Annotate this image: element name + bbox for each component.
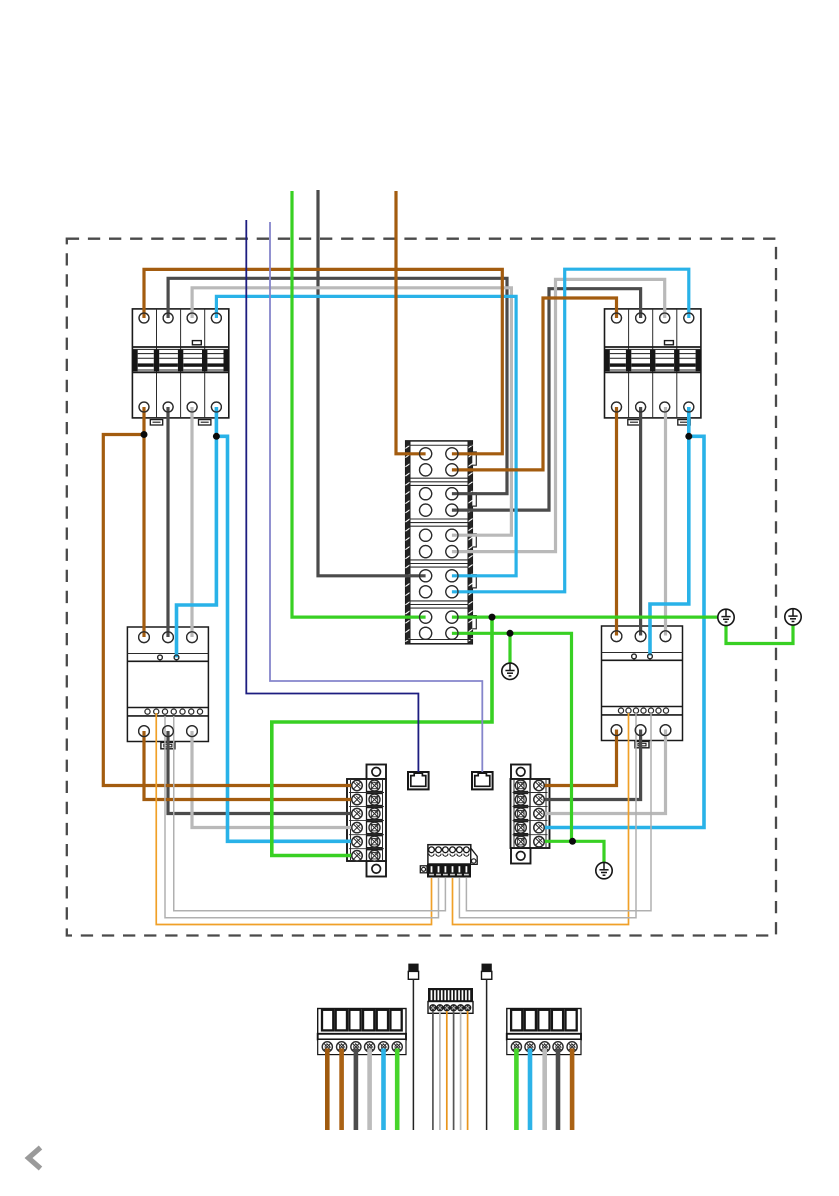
- earth symbol PE4: [502, 663, 518, 679]
- wire: contactor K1 to strip X2 row2: [144, 731, 357, 800]
- contactor K2 (right): [602, 626, 683, 748]
- terminal circles overlay: [139, 313, 694, 861]
- back navigation chevron: [29, 1148, 41, 1169]
- contactor K1 (left): [127, 627, 208, 749]
- terminal strip X3 (bottom right): [511, 765, 550, 864]
- RJ45 plug P2 (right cable end): [482, 964, 492, 1130]
- wire: contactor K1 to strip X2 row4: [192, 731, 357, 828]
- wire: X5 lead: [439, 1011, 441, 1130]
- wire: X6 lead: [367, 1049, 372, 1131]
- wire: X5 lead: [432, 1011, 434, 1130]
- wire: X1 row3 to breaker F1 pole2 top: [168, 278, 507, 493]
- pluggable connector X4 (centre bottom, inside enclosure): [420, 845, 477, 878]
- terminal block X1 (central): [405, 441, 476, 644]
- wire: contactor K1 to strip X2 row3: [168, 731, 357, 814]
- wire: branch to contactor K1 coil A2: [177, 436, 217, 657]
- enclosure dashed border: [67, 239, 776, 936]
- wire: orange control K1 to connector X4 pin1: [156, 713, 431, 925]
- wire: X1 row4 to breaker F2 pole2 top: [452, 289, 641, 510]
- wire: X1 row1 to breaker F1 pole1 top: [144, 269, 502, 453]
- wire: dark-gray supply to X1 row7: [318, 190, 426, 576]
- wire: X1 row2 to breaker F2 pole1 top: [452, 298, 617, 470]
- wire: X1 row6 to breaker F2 pole3 top: [452, 279, 665, 551]
- wire: X6 lead: [339, 1049, 344, 1131]
- wire: X7 lead: [514, 1049, 519, 1131]
- wire: white control K1 to X4 pin3: [174, 716, 446, 911]
- RJ45 jack J2 (right): [472, 772, 493, 789]
- wire: green supply to X1 row9: [292, 191, 426, 617]
- earth symbol PE3: [596, 862, 612, 878]
- junction: [213, 433, 220, 440]
- wire: white control K2 to X4 pin5: [459, 713, 636, 918]
- wire: breaker F2 pole4 bottom junction branch to strip X3 row4: [539, 407, 704, 828]
- wire: X6 lead: [354, 1049, 359, 1131]
- earth symbol PE1: [718, 609, 734, 625]
- wire: breaker F1 pole2 bottom to contactor K1: [166, 407, 169, 637]
- wire: breaker F2 pole3 bottom to contactor K2: [664, 407, 667, 636]
- wire: navy twisted-pair to RJ45 J1: [246, 220, 418, 772]
- wire: branch left to strip X2 row1: [103, 435, 357, 786]
- wire: X1 row10 to strip X3 row5: [452, 633, 572, 841]
- wire: white control K1 to X4 pin2: [165, 716, 439, 918]
- RJ45 plug P1 (left cable end): [408, 964, 418, 1130]
- wire: X6 lead: [395, 1049, 400, 1131]
- wire: X5 lead: [446, 1011, 448, 1130]
- wire: X1 row9 to earth symbol PE1: [452, 615, 718, 618]
- wire: earth link PE1 to PE2: [726, 625, 793, 644]
- wire: X1 row8 to breaker F2 pole4 top (cyan): [452, 269, 689, 592]
- wire: X7 lead: [556, 1049, 561, 1131]
- junction: [489, 614, 496, 621]
- wire: X6 lead: [381, 1049, 386, 1131]
- header connector X5 (centre, external): [428, 988, 473, 1013]
- plug connector X7 (bottom right, external): [507, 1009, 581, 1055]
- circuit breaker F1 (left 4-pole MCB): [132, 309, 229, 425]
- wire: branch to earth symbol PE4: [508, 633, 511, 663]
- earth symbol PE2: [785, 609, 801, 625]
- terminal strip X2 (bottom left): [347, 765, 386, 877]
- wire: X1 row7 to breaker F1 pole4 top (cyan): [216, 296, 516, 575]
- wire: X1 row5 to breaker F1 pole3 top: [192, 288, 511, 535]
- plug connector X6 (bottom left, external): [318, 1009, 406, 1055]
- wire: X5 lead: [453, 1011, 455, 1130]
- wire: breaker F2 pole2 bottom to contactor K2: [639, 407, 642, 636]
- wire: X7 lead: [542, 1049, 547, 1131]
- wire: contactor K2 to strip X3 row1: [539, 730, 617, 786]
- wire: white control K2 to X4 pin6: [466, 713, 651, 911]
- junction: [507, 630, 514, 637]
- wire: X6 lead: [325, 1049, 330, 1131]
- junction: [569, 838, 576, 845]
- junction: [685, 433, 692, 440]
- junction: [141, 431, 148, 438]
- RJ45 jack J1 (left): [408, 772, 429, 789]
- wire: contactor K2 to strip X3 row3: [539, 730, 666, 814]
- wire: orange control K2 to X4 pin4: [453, 713, 629, 925]
- wire: PE junction down to strip X2 row6: [272, 617, 492, 855]
- wire: X5 lead: [467, 1011, 469, 1130]
- wire: breaker F1 pole3 bottom to contactor K1: [190, 407, 193, 637]
- wire: branch to contactor K2 coil A2: [650, 436, 689, 655]
- wire: X5 lead: [460, 1011, 462, 1130]
- wire: X7 lead: [528, 1049, 533, 1131]
- wire: breaker F2 pole1 bottom to contactor K2: [615, 407, 618, 636]
- wire: slate twisted-pair to RJ45 J2: [270, 222, 482, 772]
- wire: branch to earth symbol PE3: [572, 841, 605, 862]
- wire: X7 lead: [570, 1049, 575, 1131]
- circuit breaker F2 (right 4-pole MCB): [604, 309, 701, 425]
- wire: brown supply to X1 row1: [396, 191, 426, 454]
- wire: breaker F1 pole4 bottom junction branch to strip X2 row5: [216, 407, 357, 841]
- wire: breaker F1 pole1 bottom junction to contactor K1: [142, 407, 145, 637]
- wire: contactor K2 to strip X3 row2: [539, 730, 641, 800]
